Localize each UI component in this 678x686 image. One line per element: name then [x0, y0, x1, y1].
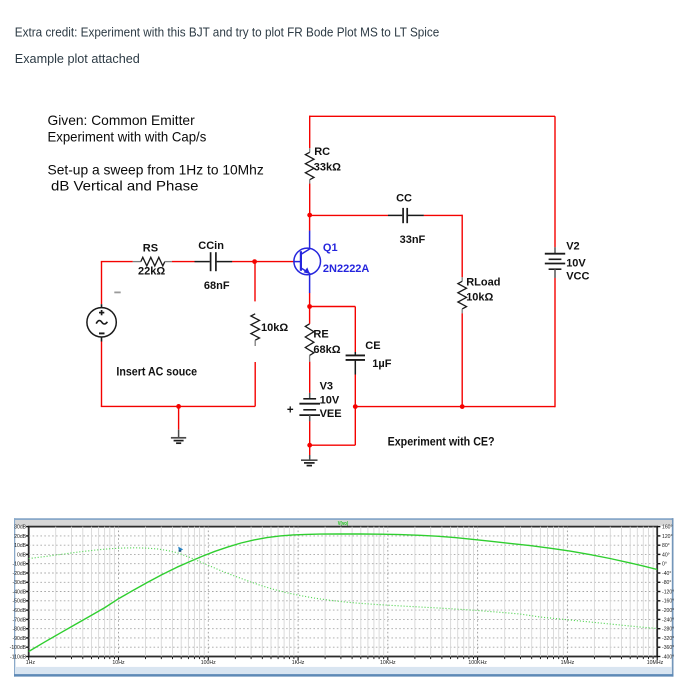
wire: emitter node to CE branch [310, 306, 356, 308]
svg-text:10kΩ: 10kΩ [261, 322, 288, 334]
wire: divider lower segment [254, 362, 256, 406]
wire: RE top [309, 307, 311, 324]
svg-text:80°: 80° [662, 543, 670, 549]
svg-text:RLoad: RLoad [466, 277, 500, 289]
wire: V2 top drop [554, 116, 556, 247]
stray mark artifact [114, 292, 120, 294]
node: V3 bottom junction dot [307, 443, 312, 448]
capacitor CE [354, 352, 356, 355]
node: RLoad bottom junction dot [460, 404, 465, 409]
svg-text:VCC: VCC [566, 271, 589, 283]
svg-text:-120°: -120° [662, 589, 674, 595]
AC source V1 [101, 304, 103, 308]
svg-text:V2: V2 [566, 241, 579, 253]
svg-text:10kΩ: 10kΩ [466, 292, 493, 304]
svg-text:CC: CC [396, 192, 412, 204]
wire: CE bottom drop [354, 374, 356, 445]
svg-text:RC: RC [314, 146, 330, 158]
svg-text:1Hz: 1Hz [26, 660, 36, 666]
bode gain curve [29, 534, 658, 652]
wire: RLoad bottom drop [461, 313, 463, 406]
svg-text:68nF: 68nF [204, 280, 230, 292]
svg-text:-80°: -80° [662, 580, 671, 586]
wire: VCC top rail [310, 115, 555, 117]
resistor R divider 10kΩ [251, 314, 260, 340]
node: base junction dot [252, 259, 257, 264]
wire: VEE rail [355, 406, 555, 408]
wire: CE top drop [354, 307, 356, 353]
svg-text:10V: 10V [566, 257, 586, 269]
svg-text:VEE: VEE [320, 408, 342, 420]
wire: RE bottom to V3 [309, 362, 311, 393]
transistor Q1 (NPN 2N2222A) [294, 231, 321, 293]
svg-text:Example plot attached: Example plot attached [15, 51, 140, 66]
resistor RS [133, 261, 141, 263]
svg-text:CE: CE [365, 340, 380, 352]
wire: CC to RLoad corner [424, 214, 463, 216]
wire: VEE bottom rail left [310, 444, 356, 446]
svg-text:Experiment with with Cap/s: Experiment with with Cap/s [48, 130, 207, 145]
svg-text:-90dB: -90dB [13, 636, 27, 642]
svg-text:RE: RE [313, 329, 328, 341]
capacitor CCin [195, 261, 210, 263]
svg-text:Given: Common Emitter: Given: Common Emitter [48, 113, 196, 128]
svg-text:-70dB: -70dB [13, 617, 27, 623]
wire: V3 bottom to gnd node [309, 421, 311, 445]
svg-text:120°: 120° [662, 534, 673, 540]
svg-text:-40°: -40° [662, 571, 671, 577]
svg-text:-360°: -360° [662, 645, 674, 651]
svg-text:10MHz: 10MHz [647, 660, 664, 666]
svg-text:-10dB: -10dB [13, 562, 27, 568]
svg-text:0dB: 0dB [17, 552, 27, 558]
voltage source V2 (VCC battery) [554, 247, 556, 253]
wire: emitter stub red [309, 293, 311, 307]
svg-text:10V: 10V [320, 395, 340, 407]
svg-text:-20dB: -20dB [13, 571, 27, 577]
svg-text:-100dB: -100dB [10, 645, 27, 651]
node: collector junction dot [307, 213, 312, 218]
svg-text:-60dB: -60dB [13, 608, 27, 614]
svg-text:20dB: 20dB [14, 534, 26, 540]
svg-text:100KHz: 100KHz [468, 660, 487, 666]
svg-text:Q1: Q1 [323, 242, 338, 254]
svg-text:Insert AC souce: Insert AC souce [116, 364, 197, 378]
voltage source V3 (VEE battery) [309, 393, 311, 399]
svg-text:-160°: -160° [662, 599, 674, 605]
wire: source bottom drop [101, 341, 103, 406]
svg-text:V3: V3 [320, 381, 333, 393]
svg-text:160°: 160° [662, 525, 673, 531]
svg-text:1KHz: 1KHz [292, 660, 305, 666]
wire: RLoad top drop [461, 215, 463, 278]
wire: V2 bottom drop [554, 278, 556, 408]
node: input rail ground junction dot [176, 404, 181, 409]
wire: base node to Q1 base [255, 261, 295, 263]
wire: divider upper segment [254, 262, 256, 302]
svg-text:dB Vertical and Phase: dB Vertical and Phase [51, 179, 199, 194]
svg-text:-30dB: -30dB [13, 580, 27, 586]
svg-text:-50dB: -50dB [13, 599, 27, 605]
wire: RC top [309, 116, 311, 149]
svg-text:-400°: -400° [662, 654, 674, 660]
wire: collector node to CC [310, 214, 388, 216]
ground (VEE side) [309, 445, 311, 455]
svg-text:40°: 40° [662, 552, 670, 558]
svg-text:-240°: -240° [662, 617, 674, 623]
svg-text:10KHz: 10KHz [380, 660, 396, 666]
svg-text:+: + [287, 405, 294, 417]
svg-text:30dB: 30dB [14, 525, 26, 531]
node: CE/VEE rail junction dot [353, 404, 358, 409]
svg-text:1MHz: 1MHz [561, 660, 575, 666]
wire: input ground rail [101, 405, 255, 407]
wire: input top to RS [101, 261, 133, 263]
svg-text:22kΩ: 22kΩ [138, 266, 165, 278]
svg-text:Set-up a sweep from 1Hz to 10M: Set-up a sweep from 1Hz to 10Mhz [48, 163, 264, 178]
resistor RE [305, 324, 314, 356]
svg-text:33nF: 33nF [400, 234, 426, 246]
bode plot window [14, 518, 673, 676]
svg-text:CCin: CCin [198, 240, 224, 252]
svg-text:-40dB: -40dB [13, 589, 27, 595]
bode phase curve [29, 548, 658, 629]
svg-text:-280°: -280° [662, 627, 674, 633]
svg-text:-200°: -200° [662, 608, 674, 614]
wire: CCin to base node [232, 261, 255, 263]
capacitor CC [388, 214, 402, 216]
svg-text:-320°: -320° [662, 636, 674, 642]
svg-text:68kΩ: 68kΩ [313, 344, 340, 356]
resistor RLoad [461, 277, 463, 281]
svg-text:1µF: 1µF [372, 358, 391, 370]
svg-text:Extra credit: Experiment with: Extra credit: Experiment with this BJT a… [15, 25, 440, 40]
wire: RC bottom to collector node [309, 184, 311, 216]
node: emitter junction dot [307, 304, 312, 309]
svg-text:2N2222A: 2N2222A [323, 263, 370, 275]
svg-text:10dB: 10dB [14, 543, 26, 549]
svg-text:RS: RS [143, 242, 158, 254]
wire: RS to CCin [172, 261, 195, 263]
svg-text:33kΩ: 33kΩ [314, 162, 341, 174]
svg-text:100Hz: 100Hz [201, 660, 216, 666]
svg-text:-110dB: -110dB [10, 654, 27, 660]
resistor RC [309, 148, 311, 152]
ground (input side) [178, 406, 180, 429]
cursor arrow [178, 547, 183, 552]
wire: collector stub red [309, 215, 311, 230]
svg-text:Experiment with CE?: Experiment with CE? [388, 435, 495, 449]
svg-text:10Hz: 10Hz [112, 660, 125, 666]
svg-text:-80dB: -80dB [13, 627, 27, 633]
svg-text:0°: 0° [662, 562, 667, 568]
wire: input source top riser [101, 262, 103, 305]
